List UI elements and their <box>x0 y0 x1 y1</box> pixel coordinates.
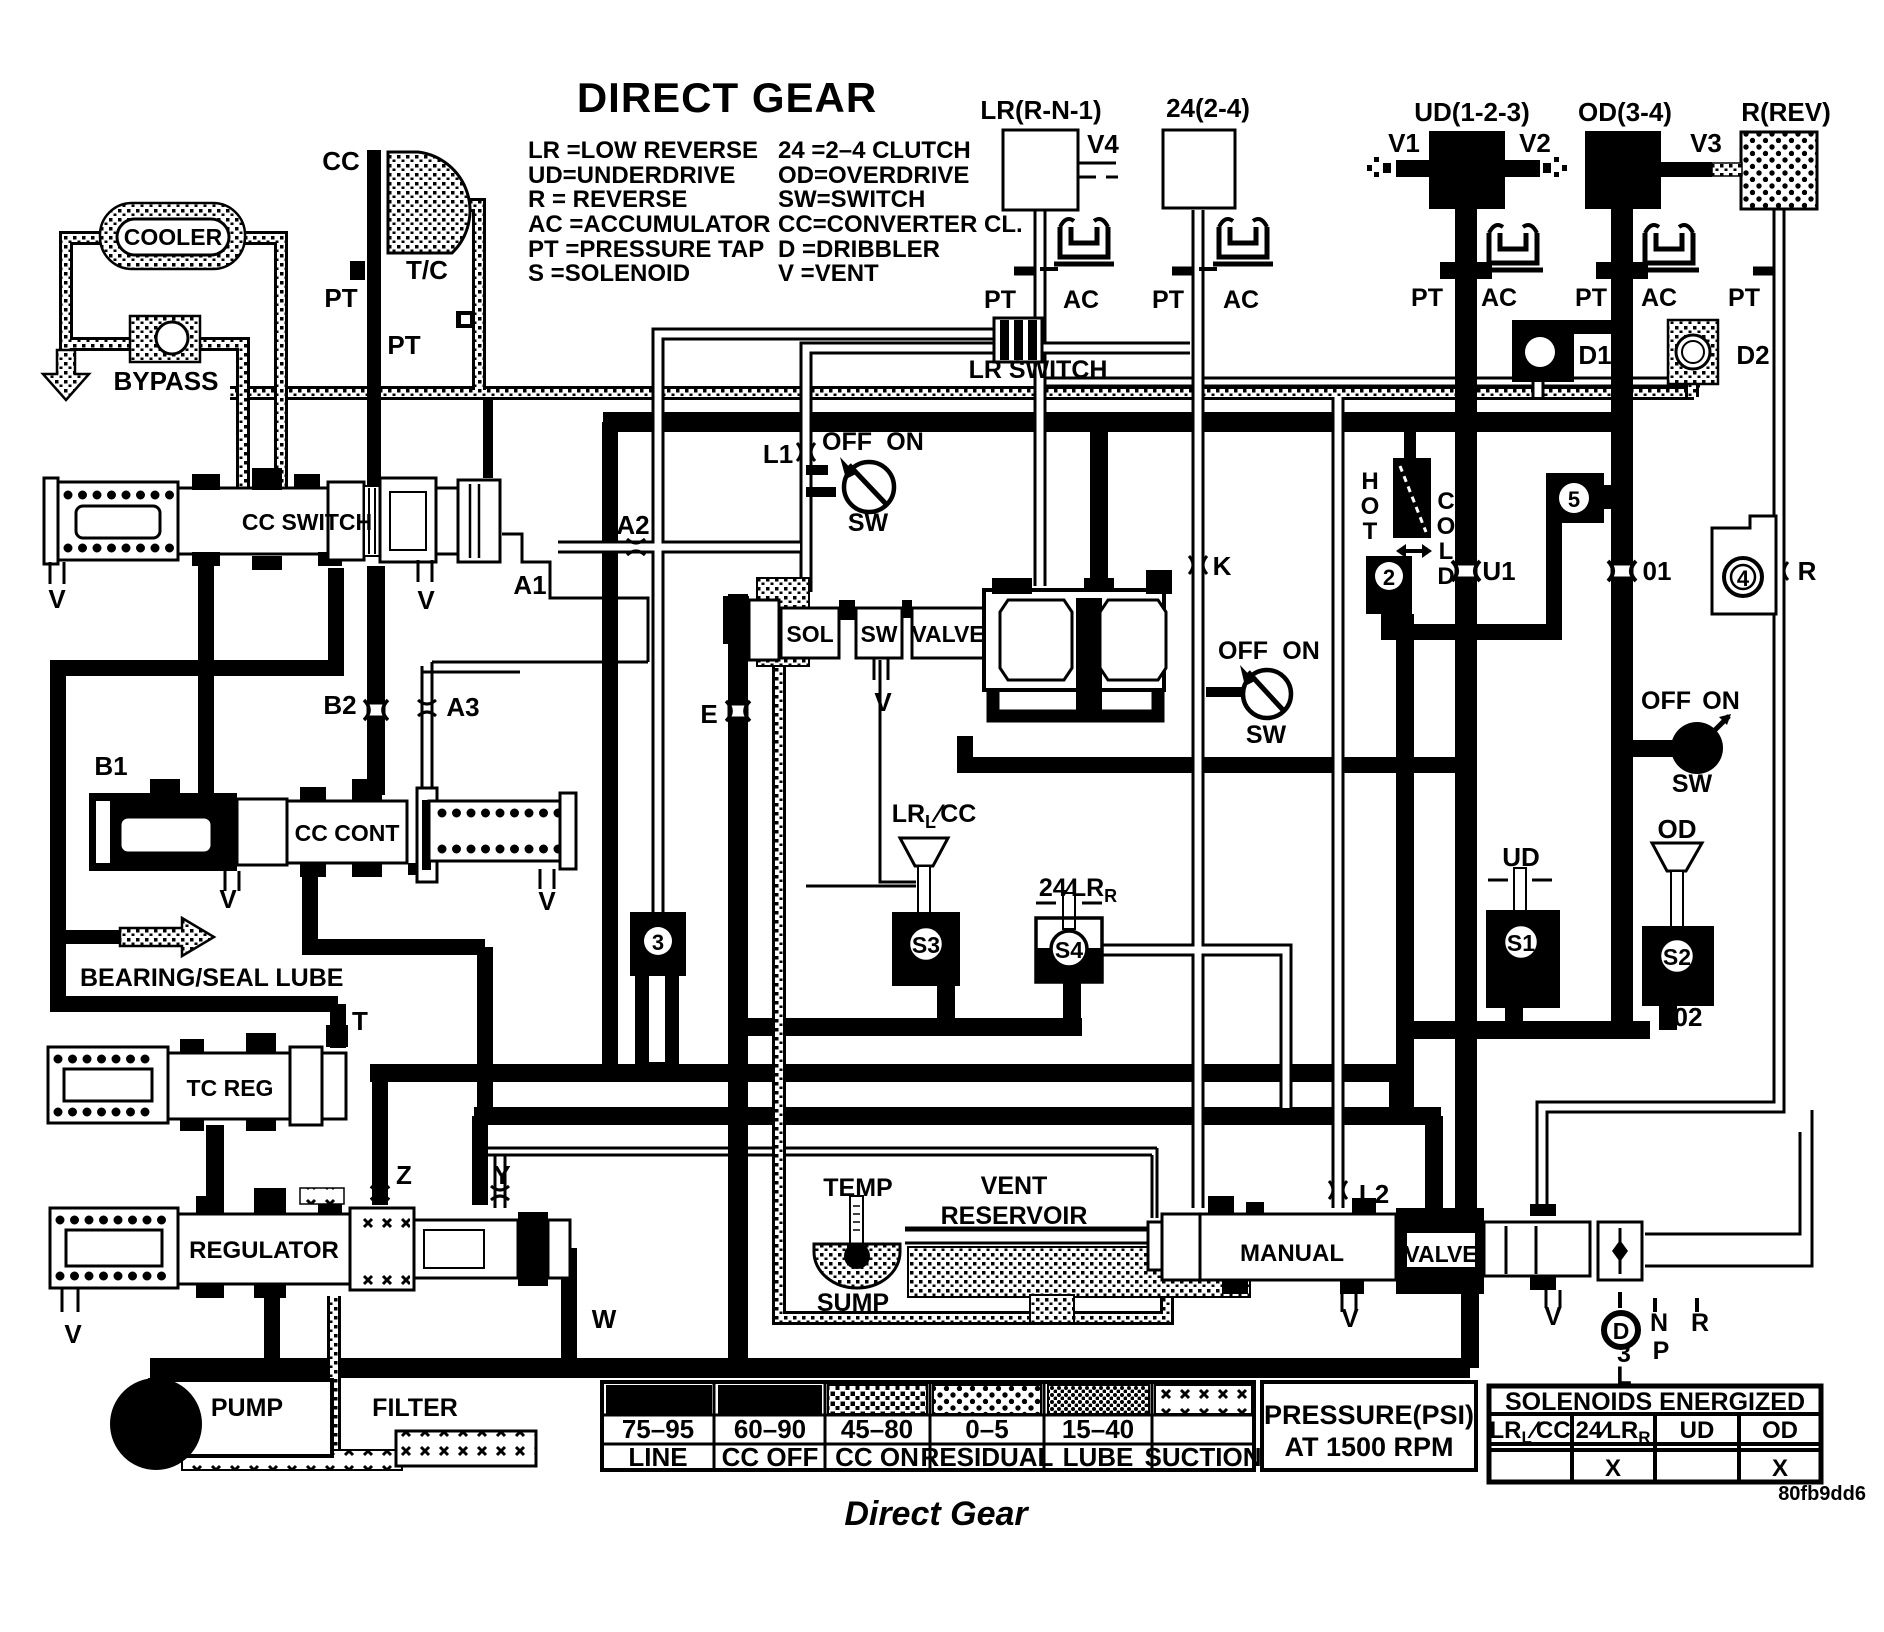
label BEARING/SEAL LUBE <box>80 964 343 992</box>
svg-text:V =VENT: V =VENT <box>778 260 879 287</box>
svg-text:AT 1500 RPM: AT 1500 RPM <box>1284 1432 1453 1462</box>
svg-text:A2: A2 <box>616 510 649 540</box>
svg-text:OD=OVERDRIVE: OD=OVERDRIVE <box>778 162 969 189</box>
svg-text:VALVE: VALVE <box>911 621 984 647</box>
svg-text:PT: PT <box>324 283 357 313</box>
svg-text:COOLER: COOLER <box>124 224 223 250</box>
node 2 <box>1366 556 1412 614</box>
svg-text:A3: A3 <box>446 692 479 722</box>
wire S3 thin feed <box>806 660 916 886</box>
svg-text:CC SWITCH: CC SWITCH <box>242 509 372 535</box>
V1 vent nozzle <box>1367 157 1430 177</box>
mid pressure switch SW <box>1240 665 1291 718</box>
svg-text:V1: V1 <box>1388 128 1420 158</box>
wire shifter right thin lines <box>1645 1110 1812 1266</box>
svg-text:BEARING/SEAL LUBE: BEARING/SEAL LUBE <box>80 964 343 992</box>
svg-text:5: 5 <box>1568 487 1580 512</box>
svg-text:SW: SW <box>1672 770 1713 798</box>
svg-text:L1: L1 <box>763 439 793 469</box>
wire E line and sump channel <box>779 652 1167 1318</box>
wire reverse R channel <box>1542 208 1779 1208</box>
T/C second PT tap mark <box>456 311 475 328</box>
node 3 <box>630 912 686 976</box>
thermal element HOT COLD <box>1393 458 1432 558</box>
svg-text:K: K <box>1213 551 1232 581</box>
svg-text:ON: ON <box>1702 687 1740 715</box>
svg-text:Y: Y <box>493 1160 510 1190</box>
svg-text:S =SOLENOID: S =SOLENOID <box>528 260 690 287</box>
node 4 check valve <box>1712 516 1776 614</box>
svg-text:S2: S2 <box>1663 944 1691 970</box>
svg-text:AC =ACCUMULATOR: AC =ACCUMULATOR <box>528 211 770 238</box>
svg-text:OFF: OFF <box>822 428 872 456</box>
svg-text:UD=UNDERDRIVE: UD=UNDERDRIVE <box>528 162 735 189</box>
PUMP <box>110 1378 332 1470</box>
UD clutch box <box>1429 131 1505 209</box>
svg-text:DIRECT GEAR: DIRECT GEAR <box>577 74 877 121</box>
svg-text:LR =LOW REVERSE: LR =LOW REVERSE <box>528 137 758 164</box>
wire sol drop line <box>728 594 748 1360</box>
svg-text:E: E <box>700 699 717 729</box>
wire manual valve drop <box>1461 1290 1479 1368</box>
capacitor-like PT tab on CC line <box>350 261 365 280</box>
V4 vent symbol <box>1078 163 1118 177</box>
wire bypass to cc switch <box>196 344 243 505</box>
bypass valve <box>130 316 200 362</box>
wire right SW stub <box>1622 740 1674 757</box>
label PT AC row <box>984 284 1760 314</box>
svg-text:R: R <box>1691 1309 1709 1337</box>
svg-text:S3: S3 <box>912 932 940 958</box>
svg-text:SUMP: SUMP <box>817 1289 889 1317</box>
svg-text:4: 4 <box>1737 566 1750 591</box>
D1 dribbler <box>1512 320 1616 382</box>
svg-text:V: V <box>538 886 556 916</box>
wire B1 drop from cc switch <box>198 566 214 795</box>
solenoid S3 <box>892 838 960 986</box>
wire UD clutch vertical U1 <box>1455 208 1477 1208</box>
wire main line pressure horizontal <box>603 412 1630 432</box>
FILTER crosshatch <box>396 1431 536 1466</box>
wire B2 line <box>50 568 344 1048</box>
wire cooler loop left <box>66 238 100 352</box>
solenoids energized table <box>1489 1386 1821 1482</box>
svg-text:15–40: 15–40 <box>1062 1414 1134 1444</box>
cooler stippled shell <box>100 203 245 269</box>
wire bearing lube feed <box>58 930 122 944</box>
wire S4 to manual valve channel <box>1101 950 1286 1108</box>
thermometer bulb <box>844 1243 870 1269</box>
svg-text:0–5: 0–5 <box>965 1414 1008 1444</box>
svg-text:RESERVOIR: RESERVOIR <box>941 1202 1088 1230</box>
svg-text:BYPASS: BYPASS <box>114 366 219 396</box>
svg-text:SW: SW <box>1246 721 1287 749</box>
svg-text:U1: U1 <box>1482 556 1515 586</box>
svg-text:D1: D1 <box>1578 340 1611 370</box>
wire regulator sump pickup <box>327 1296 341 1456</box>
svg-text:V: V <box>417 585 435 615</box>
wire LR PT stub <box>1014 267 1040 276</box>
wire UD PT tee <box>1440 262 1492 279</box>
solenoid S1 <box>1486 868 1560 1008</box>
wire cooler loop right <box>243 238 281 505</box>
svg-text:LR(R-N-1): LR(R-N-1) <box>980 95 1101 125</box>
CC SWITCH valve assembly <box>44 468 500 584</box>
svg-text:CC=CONVERTER CL.: CC=CONVERTER CL. <box>778 211 1023 238</box>
svg-text:V: V <box>64 1319 82 1349</box>
svg-text:V: V <box>1341 1303 1359 1333</box>
svg-text:CC CONT: CC CONT <box>295 820 400 846</box>
svg-text:02: 02 <box>1674 1002 1703 1032</box>
wire thin channel above stipple line <box>1035 378 1700 386</box>
svg-text:X: X <box>1772 1455 1788 1482</box>
wire regulator Z feed <box>380 1068 480 1205</box>
wire 24 clutch K line channel <box>1192 210 1205 1208</box>
wire CC converter clutch feed vertical <box>367 150 381 556</box>
svg-text:AC: AC <box>1063 286 1099 314</box>
svg-text:OFF: OFF <box>1641 687 1691 715</box>
wire D1 dribbler stem <box>1532 382 1545 397</box>
svg-text:SOLENOIDS ENERGIZED: SOLENOIDS ENERGIZED <box>1505 1388 1805 1416</box>
accumulator AC for OD <box>1639 225 1699 270</box>
svg-text:SW: SW <box>848 509 889 537</box>
table labels row <box>628 1442 1261 1472</box>
wire Y channel <box>495 1155 505 1208</box>
wire A1 thin line <box>502 534 648 662</box>
svg-text:UD: UD <box>1680 1417 1715 1444</box>
svg-text:3: 3 <box>652 930 664 955</box>
wire node5 link <box>1381 523 1554 640</box>
24 clutch box <box>1163 130 1235 208</box>
svg-text:X: X <box>1605 1455 1621 1482</box>
svg-text:60–90: 60–90 <box>734 1414 806 1444</box>
wire A3 channel <box>422 662 648 788</box>
pressure legend table <box>602 1382 1254 1470</box>
wire OD clutch vertical 01 <box>1611 208 1633 1030</box>
svg-text:24 =2–4 CLUTCH: 24 =2–4 CLUTCH <box>778 137 971 164</box>
svg-text:LINE: LINE <box>628 1442 687 1472</box>
svg-text:RESIDUAL: RESIDUAL <box>921 1442 1054 1472</box>
svg-text:T: T <box>1363 518 1378 545</box>
svg-text:PRESSURE(PSI): PRESSURE(PSI) <box>1264 1400 1474 1430</box>
wire long horizontal lower <box>474 1116 1441 1212</box>
svg-text:ON: ON <box>886 428 924 456</box>
right pressure switch SW black <box>1671 714 1731 774</box>
svg-text:SUCTION: SUCTION <box>1145 1442 1262 1472</box>
svg-text:AC: AC <box>1481 284 1517 312</box>
solenoid S4 <box>1036 893 1102 982</box>
svg-text:V: V <box>48 584 66 614</box>
svg-text:TC REG: TC REG <box>187 1075 274 1101</box>
accumulator AC for 24 <box>1199 219 1273 269</box>
wire OD elbow to S2 <box>1612 1021 1650 1039</box>
svg-text:CC: CC <box>322 146 360 176</box>
svg-text:D =DRIBBLER: D =DRIBBLER <box>778 236 940 263</box>
svg-text:V: V <box>874 687 892 717</box>
wire node-3 feed channel <box>658 334 996 915</box>
SUMP cup <box>814 1244 900 1288</box>
wire sol valve feed vertical <box>602 422 618 1064</box>
svg-text:CC OFF: CC OFF <box>722 1442 819 1472</box>
wire regulator to pump <box>264 1298 280 1362</box>
svg-text:PT: PT <box>387 330 420 360</box>
svg-text:CC ON: CC ON <box>835 1442 919 1472</box>
svg-text:OD(3-4): OD(3-4) <box>1578 97 1672 127</box>
svg-text:T/C: T/C <box>406 255 448 285</box>
label COLD vertical <box>1437 488 1456 590</box>
wire suction crosshatch channel <box>182 1450 402 1470</box>
wire bypass branch <box>70 337 135 351</box>
svg-text:OD: OD <box>1762 1417 1798 1444</box>
accumulator AC for UD <box>1483 225 1543 270</box>
legend text column 2 <box>778 137 1023 287</box>
svg-text:PT: PT <box>1728 284 1760 312</box>
wire OD PT tee <box>1596 262 1648 279</box>
svg-text:45–80: 45–80 <box>841 1414 913 1444</box>
svg-text:S4: S4 <box>1055 937 1083 963</box>
svg-text:V3: V3 <box>1690 128 1722 158</box>
cooler body <box>117 219 229 255</box>
pressure psi box <box>1262 1382 1476 1470</box>
accumulator AC for LR <box>1040 219 1114 269</box>
wire A2 channel <box>558 541 800 554</box>
svg-text:L2: L2 <box>1359 1179 1389 1209</box>
MANUAL VALVE assembly <box>1148 1196 1642 1312</box>
wire B2 drop to CC CONT <box>367 566 385 795</box>
LR clutch box <box>1003 130 1078 210</box>
label HOT vertical <box>1361 468 1380 545</box>
solenoid S2 <box>1642 843 1714 1006</box>
wire R PT stub <box>1753 267 1779 276</box>
svg-text:V: V <box>219 884 237 914</box>
wire TC REG to regulator link <box>206 1125 224 1210</box>
svg-text:Direct Gear: Direct Gear <box>844 1495 1029 1533</box>
svg-text:VALVE: VALVE <box>1404 1241 1477 1267</box>
svg-text:AC: AC <box>1641 284 1677 312</box>
svg-text:OFF: OFF <box>1218 637 1268 665</box>
SOL SW VALVE solenoid assembly <box>723 570 1172 716</box>
svg-text:L: L <box>1616 1362 1631 1390</box>
svg-text:V2: V2 <box>1519 128 1551 158</box>
svg-text:O: O <box>1437 513 1456 540</box>
svg-text:LR SWITCH: LR SWITCH <box>969 356 1108 384</box>
svg-text:S1: S1 <box>1507 930 1535 956</box>
svg-text:AC: AC <box>1223 286 1259 314</box>
svg-text:SW=SWITCH: SW=SWITCH <box>778 186 925 213</box>
svg-text:SW: SW <box>860 621 897 647</box>
svg-text:Z: Z <box>396 1160 412 1190</box>
wire stippled main horizontal line <box>230 386 1694 400</box>
svg-text:T: T <box>352 1006 368 1036</box>
svg-text:PT: PT <box>984 286 1016 314</box>
legend text column 1 <box>528 137 770 287</box>
wire channel interiors overstrike <box>558 208 1779 1318</box>
svg-text:V: V <box>1544 1301 1562 1331</box>
wire D2 dribbler stem <box>1685 382 1699 397</box>
VENT RESERVOIR tank <box>905 1229 1307 1323</box>
svg-text:MANUAL: MANUAL <box>1240 1240 1344 1267</box>
svg-text:D2: D2 <box>1736 340 1769 370</box>
D2 dribbler <box>1668 320 1718 384</box>
svg-text:2: 2 <box>1383 565 1395 590</box>
label shifter letters <box>1616 1309 1709 1390</box>
svg-text:75–95: 75–95 <box>622 1414 694 1444</box>
wire L2 channel <box>1332 397 1345 1208</box>
wire solenoid bottom line S3 S4 <box>744 981 1082 1027</box>
wire lube thin line long <box>477 1148 1157 1218</box>
footer code <box>1778 1483 1866 1505</box>
V2 vent nozzle <box>1504 157 1567 177</box>
svg-text:L: L <box>1439 538 1454 565</box>
svg-text:PT: PT <box>1575 284 1607 312</box>
svg-text:R = REVERSE: R = REVERSE <box>528 186 687 213</box>
svg-text:FILTER: FILTER <box>372 1394 458 1422</box>
V3 vent nozzle <box>1660 162 1742 177</box>
bypass arrow <box>43 350 89 400</box>
LR SWITCH striped box <box>994 318 1042 362</box>
svg-text:V4: V4 <box>1087 129 1119 159</box>
svg-text:R: R <box>1798 556 1817 586</box>
wire regulator W line <box>537 1248 569 1368</box>
CC CONT valve assembly <box>89 779 576 891</box>
wire valve bottom line <box>957 736 1459 765</box>
svg-text:PT =PRESSURE TAP: PT =PRESSURE TAP <box>528 236 764 263</box>
wire 02 solenoid line <box>1405 1000 1668 1030</box>
svg-text:C: C <box>1437 488 1454 515</box>
wire bottom suction supply line <box>150 1358 1470 1378</box>
wire switch valve feed vertical <box>1090 430 1108 590</box>
TEMP thermometer <box>844 1196 870 1271</box>
svg-text:N: N <box>1650 1309 1668 1337</box>
svg-text:80fb9dd6: 80fb9dd6 <box>1778 1483 1866 1505</box>
port break marks <box>364 443 1788 1200</box>
wire node3 lower link <box>635 962 679 1068</box>
svg-text:B2: B2 <box>323 690 356 720</box>
svg-text:UD: UD <box>1502 842 1540 872</box>
table numbers row <box>622 1414 1134 1444</box>
wire T/C outlet channel <box>451 205 479 390</box>
svg-text:PT: PT <box>1152 286 1184 314</box>
wire node2 drop <box>1396 614 1414 1116</box>
T/C torque converter dome <box>388 152 470 253</box>
L1 pressure switch SW <box>806 457 894 512</box>
svg-text:P: P <box>1653 1337 1670 1365</box>
R REV clutch box <box>1741 132 1817 209</box>
svg-text:REGULATOR: REGULATOR <box>189 1237 339 1264</box>
svg-text:H: H <box>1361 468 1378 495</box>
svg-text:TEMP: TEMP <box>823 1174 892 1202</box>
svg-text:A1: A1 <box>513 570 546 600</box>
node 5 <box>1546 473 1628 523</box>
svg-text:B1: B1 <box>94 751 127 781</box>
svg-text:OD: OD <box>1658 814 1697 844</box>
svg-text:R(REV): R(REV) <box>1741 97 1831 127</box>
wire LR clutch stem channel <box>1034 210 1047 586</box>
wire thermal element stem <box>1404 430 1416 462</box>
wire long horizontal upper <box>370 1073 1400 1113</box>
svg-text:PUMP: PUMP <box>211 1394 283 1422</box>
svg-text:VENT: VENT <box>981 1172 1048 1200</box>
wire CC CONT bottom feed <box>302 872 485 1118</box>
svg-text:01: 01 <box>1643 556 1672 586</box>
wire L1 channel <box>806 348 1190 592</box>
svg-text:W: W <box>592 1304 617 1334</box>
svg-text:24(2-4): 24(2-4) <box>1166 93 1250 123</box>
svg-text:PT: PT <box>1411 284 1443 312</box>
svg-text:O: O <box>1361 493 1380 520</box>
svg-text:SOL: SOL <box>786 621 833 647</box>
wire 24 PT stub <box>1172 267 1198 276</box>
wire mid SW stub <box>1206 687 1242 697</box>
OD clutch box <box>1585 131 1661 209</box>
svg-text:ON: ON <box>1282 637 1320 665</box>
svg-text:UD(1-2-3): UD(1-2-3) <box>1414 97 1530 127</box>
bearing seal lube arrow <box>120 918 214 956</box>
REGULATOR valve assembly <box>50 1188 570 1312</box>
svg-text:LUBE: LUBE <box>1063 1442 1134 1472</box>
svg-text:D: D <box>1437 563 1454 590</box>
TC REG valve assembly <box>48 1025 348 1131</box>
wire cooler loop stub to cc switch <box>483 398 493 478</box>
shifter D N R P L indicator <box>1604 1292 1697 1347</box>
